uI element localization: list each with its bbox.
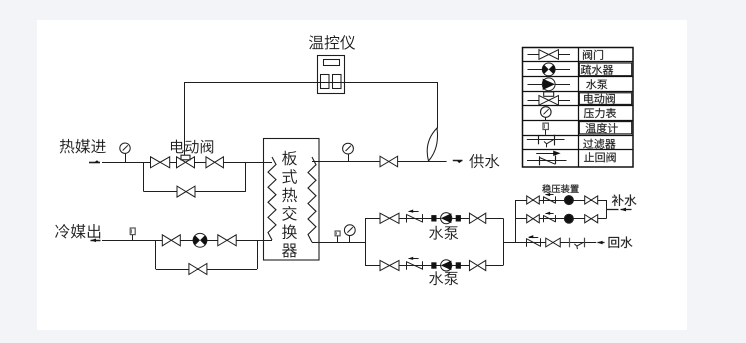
pump P3 (564, 196, 573, 205)
flow arrow makeup inlet (606, 208, 632, 212)
thermometer T1 (130, 228, 135, 240)
legend label 电动阀 (584, 94, 615, 104)
legend row2 steam trap symbol (528, 63, 571, 76)
legend row8 check valve symbol (527, 151, 567, 166)
filter F1 (570, 238, 585, 249)
wire controller drop to temperature sensor (437, 82, 439, 129)
valve V4 (380, 156, 398, 167)
label 补水 (612, 194, 636, 206)
check valve CV5 (527, 235, 541, 247)
wire pump branch 1 (365, 218, 503, 220)
legend boxed label cell (579, 93, 631, 105)
legend row4 electric valve symbol (528, 92, 571, 105)
pressure gauge PG3 (344, 225, 355, 243)
check valve CV3 (544, 193, 556, 204)
wire cold outlet pipe (102, 240, 272, 242)
label 稳压装置 (542, 184, 578, 193)
valve V13 (585, 196, 598, 204)
legend row6 thermometer symbol (543, 123, 548, 135)
flow arrow return inlet (597, 241, 604, 245)
temperature sensor TE1 leaf (427, 128, 437, 161)
legend boxed label cell (579, 122, 631, 134)
wire pump header right (503, 218, 505, 265)
valve V9 (469, 213, 485, 223)
wire makeup header (515, 200, 517, 243)
label 回水 (609, 236, 633, 248)
wire hot bypass right drop (245, 162, 247, 191)
legend table frame (522, 47, 633, 167)
wire makeup branch 2 (515, 218, 606, 220)
legend label 止回阀 (584, 152, 615, 162)
legend row7 filter symbol (527, 135, 565, 148)
label 热媒进 (60, 139, 106, 154)
wire pump header left (365, 218, 367, 265)
wire hot bypass pipe (144, 191, 246, 193)
flow arrow hot inlet (89, 160, 100, 162)
flow arrow cold outlet (91, 239, 101, 243)
label 供水 (469, 154, 499, 168)
thermometer T2 (335, 231, 340, 242)
valve V16 (546, 238, 561, 247)
label 电动阀 (171, 140, 213, 154)
valve V10 (380, 260, 399, 270)
wire supply pipe (312, 161, 447, 163)
wire cold bypass pipe (156, 269, 257, 271)
valve V7 bypass (189, 264, 207, 275)
valve V3 bypass (177, 186, 195, 197)
legend label 过滤器 (583, 139, 615, 149)
legend label 温度计 (586, 123, 618, 133)
wire HX outlet pipe (312, 242, 365, 244)
wire makeup branch 1 (515, 200, 606, 202)
wire controller signal line (184, 82, 437, 84)
HX1 right coil (308, 157, 316, 242)
HX1 left coil (268, 157, 276, 240)
temperature controller U1 (318, 56, 345, 94)
legend label 压力表 (584, 108, 616, 118)
wire cold bypass right drop (257, 240, 259, 269)
legend label 疏水器 (581, 65, 613, 75)
valve V15 (585, 215, 598, 223)
heat exchanger HX1 body (264, 139, 320, 261)
pressure gauge PG2 (343, 143, 354, 161)
valve V5 (162, 235, 180, 246)
valve V1 (151, 157, 170, 168)
valve V11 (469, 260, 485, 270)
wire pump merge stub (503, 242, 515, 244)
label 水泵 pump 1 (429, 226, 458, 240)
flow arrow supply outlet (453, 161, 463, 164)
legend boxed label cell (579, 63, 631, 76)
label 温控仪 (309, 35, 355, 50)
legend row1 valve symbol (528, 50, 571, 60)
check valve CV2 (407, 257, 423, 270)
legend label 水泵 (586, 79, 607, 89)
label 板式热交换器 (282, 151, 297, 258)
legend row3 pump symbol (528, 78, 571, 91)
valve V12 (527, 196, 540, 204)
legend label 阀门 (583, 50, 603, 60)
steam trap ST1 (193, 233, 207, 247)
check valve CV1 (407, 210, 423, 223)
wire pump branch 2 (365, 265, 503, 267)
wire hot bypass left drop (143, 162, 145, 191)
electric valve MV1 (177, 155, 195, 168)
check valve CV4 (544, 212, 556, 223)
legend row5 pressure gauge symbol (541, 107, 552, 121)
valve V8 (380, 213, 399, 223)
pump P2 with flanges (431, 260, 461, 271)
white drawing panel (37, 20, 687, 330)
valve V6 (218, 235, 236, 246)
wire return pipe (515, 242, 596, 244)
label 水泵 pump 2 (429, 271, 458, 285)
wire makeup merge (606, 200, 608, 219)
wire hot inlet pipe (102, 162, 272, 164)
pump P4 (564, 214, 573, 223)
label 冷媒出 (55, 224, 100, 239)
valve V2 (206, 157, 224, 168)
pressure gauge PG1 (120, 143, 130, 162)
valve V14 (527, 215, 540, 223)
pump P1 with flanges (431, 213, 461, 224)
wire cold bypass left drop (155, 240, 157, 269)
wire controller drop to electric valve (184, 82, 186, 156)
